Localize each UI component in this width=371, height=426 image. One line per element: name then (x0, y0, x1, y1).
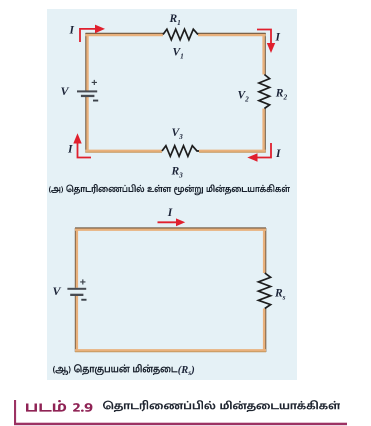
svg-text:R1: R1 (169, 13, 181, 27)
svg-text:R2: R2 (275, 88, 288, 102)
svg-text:+: + (91, 77, 97, 89)
svg-text:I: I (275, 32, 281, 44)
svg-text:I: I (275, 148, 281, 160)
svg-text:R3: R3 (171, 165, 184, 179)
svg-text:V1: V1 (173, 46, 184, 60)
svg-text:V2: V2 (238, 90, 250, 104)
svg-text:+: + (80, 277, 86, 289)
svg-text:Rs: Rs (274, 288, 286, 302)
svg-text:(Rs): (Rs) (178, 365, 195, 377)
svg-text:I: I (167, 207, 173, 219)
svg-text:I: I (67, 144, 73, 156)
svg-text:V: V (53, 284, 62, 298)
svg-text:I: I (69, 24, 75, 36)
svg-text:V3: V3 (172, 127, 184, 141)
svg-text:V: V (61, 84, 70, 98)
